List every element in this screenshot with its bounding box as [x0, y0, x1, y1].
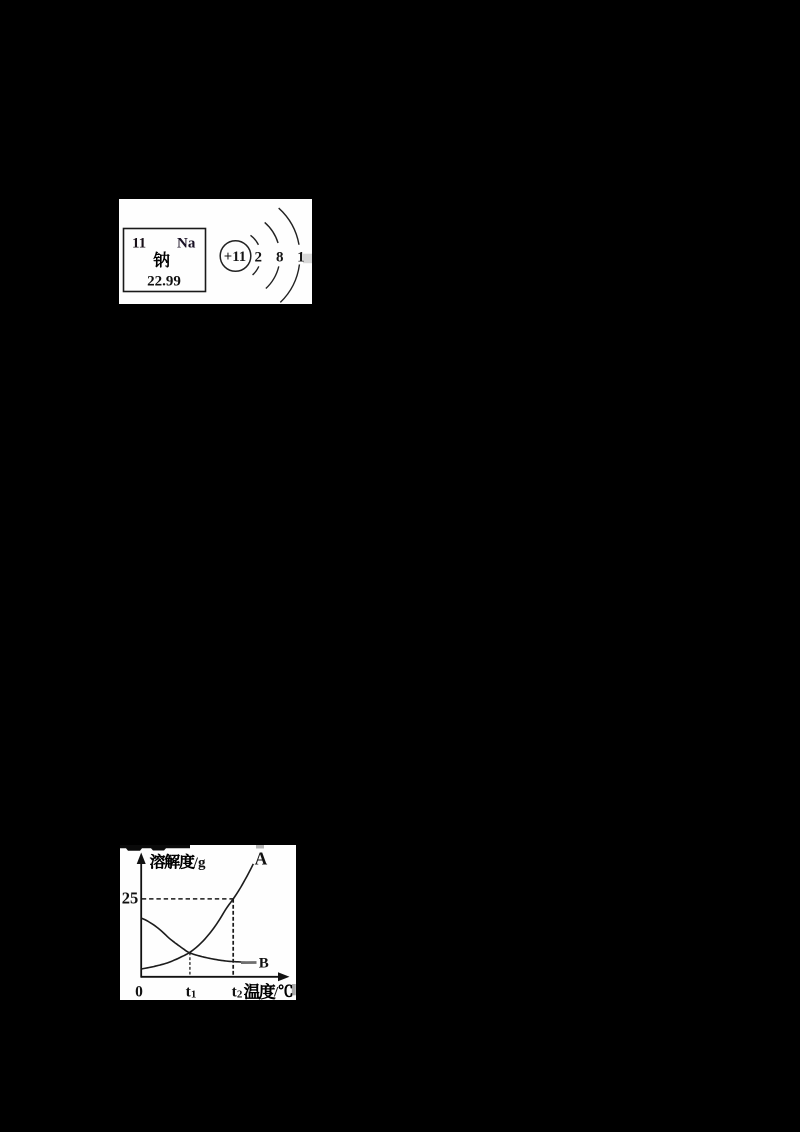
svg-text:+11: +11 — [224, 249, 246, 265]
svg-text:t2: t2 — [232, 984, 243, 1000]
periodic-table cell panel for sodium — [119, 199, 312, 304]
x-axis — [141, 976, 281, 978]
svg-text:8: 8 — [276, 249, 284, 265]
y-axis — [140, 861, 142, 978]
grey artifact behind 1 — [303, 254, 312, 264]
x-axis label 温度/℃ — [244, 984, 260, 999]
element name 钠 — [154, 252, 170, 268]
svg-text:0: 0 — [135, 984, 143, 1000]
curve B grey end segment — [241, 961, 257, 964]
y-axis label 溶解度/g — [150, 854, 165, 869]
dashed vertical at t2 — [232, 899, 234, 976]
svg-text:11: 11 — [132, 236, 146, 252]
x-axis arrowhead — [278, 972, 290, 981]
electron shell arc 2 (8 electrons) — [265, 222, 279, 288]
svg-text:/: / — [273, 985, 279, 1000]
electron shell arc 3 (1 electron) — [279, 208, 300, 302]
curve B — [142, 918, 247, 962]
electron shell arc 1 (2 electrons) — [250, 235, 258, 275]
dashed vertical at t1 — [189, 953, 191, 977]
svg-text:Na: Na — [177, 236, 196, 252]
dashed line y=25 — [142, 898, 233, 900]
element box border — [124, 229, 206, 292]
svg-text:1: 1 — [297, 249, 305, 265]
cropped dark strip at top — [120, 845, 190, 851]
grey artifact above A — [256, 845, 264, 849]
svg-text:/g: /g — [193, 855, 206, 871]
svg-text:t1: t1 — [186, 984, 197, 1000]
svg-text:25: 25 — [122, 888, 139, 907]
svg-text:2: 2 — [254, 249, 262, 265]
solubility curve graph panel — [120, 845, 296, 1000]
nucleus circle — [220, 241, 251, 272]
curve A — [142, 864, 254, 969]
y-axis arrowhead — [137, 853, 146, 865]
svg-text:A: A — [255, 849, 268, 869]
grey artifact at right of ℃ — [292, 984, 296, 995]
svg-text:22.99: 22.99 — [147, 274, 181, 290]
svg-text:B: B — [259, 956, 269, 972]
